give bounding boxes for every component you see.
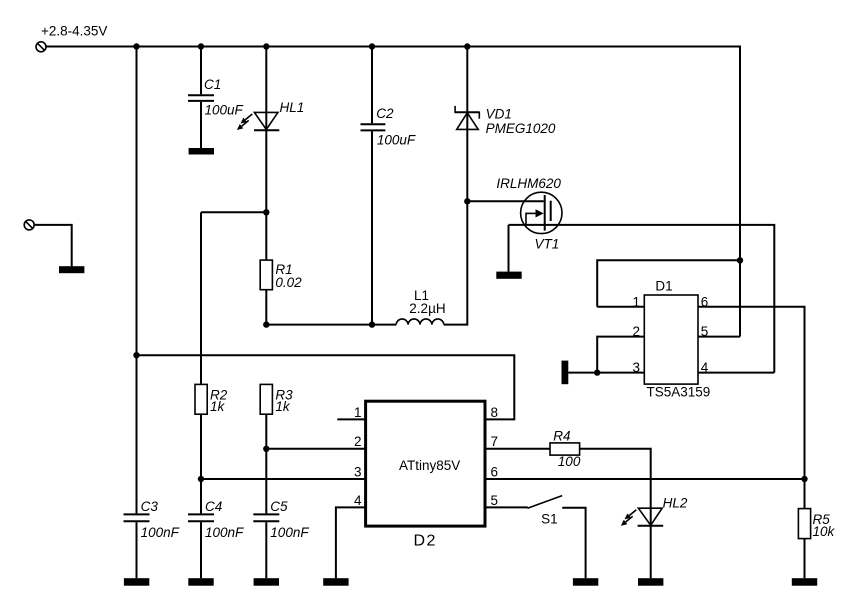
- svg-text:TS5A3159: TS5A3159: [647, 384, 711, 399]
- svg-text:C2: C2: [376, 106, 394, 121]
- wire D2 pin 2: [266, 448, 365, 450]
- wire R2 column vertical upper: [200, 212, 202, 384]
- wire HL1/R1 tap to R2 column: [201, 211, 266, 213]
- svg-text:C1: C1: [204, 77, 221, 92]
- svg-text:HL2: HL2: [663, 495, 688, 510]
- wire R3 bottom: [265, 414, 267, 513]
- wire D2 pin 5 to S1: [485, 506, 528, 508]
- svg-text:D1: D1: [655, 279, 672, 294]
- wire D2 pin 7 to R4: [485, 448, 550, 450]
- IC D1 (TS5A3159): [644, 295, 698, 384]
- junction C2/L1: [369, 321, 375, 327]
- LED HL1: [237, 112, 279, 130]
- wire C1 top: [200, 47, 202, 95]
- wire D1 pin 4: [698, 372, 774, 374]
- svg-text:6: 6: [491, 465, 499, 480]
- ground (HL2): [638, 578, 663, 586]
- wire D2 pin 8 to VCC net: [137, 355, 515, 419]
- resistor R1: [260, 260, 272, 290]
- svg-text:D2: D2: [414, 532, 437, 549]
- wire D1 pin 1: [597, 306, 644, 308]
- wire switch node to L1: [266, 324, 396, 326]
- junction rail/HL1: [263, 43, 269, 49]
- wire top supply rail with right drop to D1 pin 5: [47, 47, 741, 337]
- junction R1/L1 net: [263, 321, 269, 327]
- capacitor C5: [253, 514, 279, 521]
- svg-text:100uF: 100uF: [205, 103, 244, 118]
- LED HL2: [621, 508, 663, 526]
- wire X2 to ground: [35, 225, 72, 266]
- svg-text:C5: C5: [270, 499, 288, 514]
- diode VD1 (Schottky): [455, 106, 479, 129]
- svg-text:4: 4: [354, 493, 362, 508]
- svg-text:3: 3: [632, 360, 640, 375]
- svg-text:C3: C3: [141, 499, 159, 514]
- svg-text:2: 2: [354, 434, 362, 449]
- wire R4 to HL2: [580, 449, 651, 526]
- wire R1 bottom: [265, 290, 267, 325]
- junction VD1/VT1 drain: [464, 198, 470, 204]
- wire D1 pin1 feed: [597, 260, 740, 307]
- svg-text:2: 2: [632, 324, 640, 339]
- svg-text:1: 1: [632, 294, 640, 309]
- wire D1 pin 3: [568, 372, 644, 374]
- capacitor C1: [188, 95, 214, 101]
- ground (S1): [573, 578, 598, 586]
- svg-text:10k: 10k: [813, 524, 836, 539]
- wire VT1 drain: [467, 200, 543, 202]
- junction top rail drop / D1 pin1 feed: [737, 257, 743, 263]
- svg-text:VT1: VT1: [535, 237, 560, 252]
- wire D2 pin 4 to ground: [336, 507, 366, 578]
- svg-text:3: 3: [354, 465, 362, 480]
- switch S1: [528, 496, 586, 579]
- wire D2 pin 6 to R5: [485, 478, 805, 480]
- wire D2 pin 1 stub: [337, 418, 365, 420]
- capacitor C3: [124, 514, 150, 521]
- svg-text:PMEG1020: PMEG1020: [486, 121, 556, 136]
- wire D2 pin 3: [201, 478, 366, 480]
- resistor R4: [550, 443, 580, 455]
- svg-text:1k: 1k: [210, 399, 226, 414]
- svg-text:2.2µH: 2.2µH: [409, 301, 445, 316]
- svg-text:8: 8: [491, 405, 499, 420]
- transistor VT1 (IRLHM620 N-MOSFET): [521, 192, 562, 233]
- wire HL2 cathode to ground: [650, 526, 652, 578]
- junction R2/C4/pin3: [198, 476, 204, 482]
- junction rail/VD1: [464, 43, 470, 49]
- wire L1 right up to VD1/VT1 node: [444, 112, 468, 324]
- svg-text:100nF: 100nF: [270, 525, 309, 540]
- wire C3 to ground: [136, 522, 138, 578]
- svg-text:5: 5: [701, 324, 709, 339]
- svg-text:100: 100: [558, 454, 581, 469]
- wire VD1 top: [466, 47, 468, 113]
- wire C3 column vertical: [136, 47, 138, 514]
- wire R5 to ground: [804, 539, 806, 579]
- junction C3 column / pin8 net: [133, 352, 139, 358]
- ground (C4): [188, 578, 213, 586]
- junction HL1/R1/tap: [263, 209, 269, 215]
- svg-text:HL1: HL1: [280, 100, 305, 115]
- inductor L1: [396, 319, 444, 325]
- wire R2 bottom: [200, 414, 202, 513]
- capacitor C2: [361, 124, 386, 130]
- wire HL1 anode: [265, 47, 267, 131]
- junction rail/C2: [369, 43, 375, 49]
- ground (D2 pin 4): [323, 578, 348, 586]
- svg-text:100nF: 100nF: [205, 525, 244, 540]
- junction pin6/R5/D1 pin6: [801, 476, 807, 482]
- svg-text:4: 4: [701, 360, 709, 375]
- ground (X2): [59, 266, 84, 273]
- wire C4 to ground: [200, 522, 202, 578]
- wire C2 top: [371, 47, 373, 124]
- svg-text:1k: 1k: [275, 399, 291, 414]
- wire D1 pin 5: [698, 336, 740, 338]
- ground (C5): [254, 578, 279, 586]
- junction R3/C5/pin2: [263, 446, 269, 452]
- ground (C3): [124, 578, 149, 586]
- ground (D1 pin 3, sideways): [562, 361, 569, 385]
- svg-text:7: 7: [491, 434, 499, 449]
- svg-text:C4: C4: [205, 499, 222, 514]
- terminal X1 (+ supply input): [36, 42, 46, 52]
- IC D2 (ATtiny85V): [366, 401, 485, 526]
- svg-text:R4: R4: [553, 428, 570, 443]
- resistor R5: [798, 509, 810, 539]
- svg-text:6: 6: [701, 294, 709, 309]
- ground (VT1 source): [496, 272, 521, 279]
- svg-text:+2.8-4.35V: +2.8-4.35V: [41, 24, 107, 39]
- junction D1 pin2/pin3 ground net: [594, 369, 600, 375]
- terminal X2 (input return): [24, 220, 34, 230]
- wire HL1 cathode down to R1: [265, 130, 267, 260]
- wire VT1 source/gate rail to D1 pin 4: [509, 225, 775, 373]
- svg-text:0.02: 0.02: [275, 275, 302, 290]
- svg-text:1: 1: [354, 405, 362, 420]
- svg-text:ATtiny85V: ATtiny85V: [399, 458, 460, 473]
- junction rail/C1: [198, 43, 204, 49]
- resistor R3: [260, 384, 272, 414]
- wire VT1 source to ground: [508, 225, 510, 272]
- capacitor C4: [188, 514, 214, 521]
- wire D1 pin 6 to R5 column: [698, 307, 805, 509]
- svg-text:IRLHM620: IRLHM620: [496, 176, 561, 191]
- resistor R2: [195, 384, 207, 414]
- svg-text:100nF: 100nF: [141, 525, 180, 540]
- svg-text:5: 5: [491, 493, 499, 508]
- junction rail/C3 column: [133, 43, 139, 49]
- ground (R5): [792, 578, 817, 586]
- wire D1 pin 2 to ground net: [597, 337, 644, 373]
- wire C5 to ground: [265, 522, 267, 578]
- wire C1 to ground: [200, 102, 202, 148]
- ground (C1): [189, 148, 214, 155]
- svg-text:S1: S1: [541, 512, 558, 527]
- wire C2 bottom: [371, 131, 373, 324]
- svg-text:VD1: VD1: [486, 107, 512, 122]
- svg-text:100uF: 100uF: [377, 133, 416, 148]
